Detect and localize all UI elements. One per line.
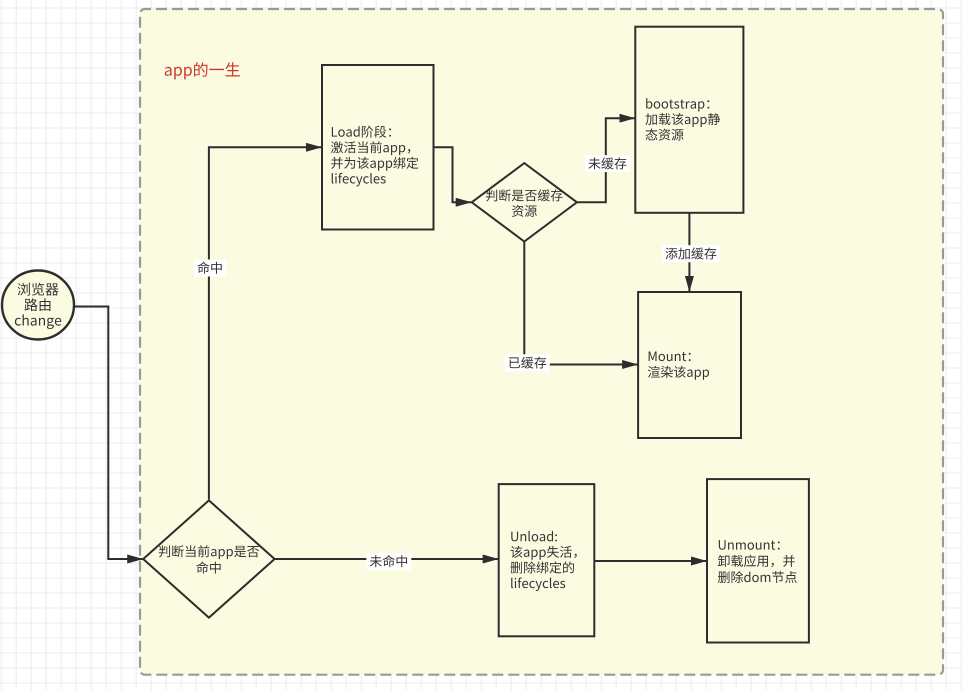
label: 未缓存	[585, 155, 630, 172]
wire: bootstrap -> Mount (添加缓存)	[688, 213, 690, 292]
node: rect Load阶段	[322, 65, 434, 230]
node: rect Unmount 卸载应用	[707, 479, 809, 642]
label: 已缓存	[505, 354, 550, 371]
wire: 判断是否缓存资源 -> Mount (已缓存)	[524, 242, 637, 365]
wire: Unload -> Unmount	[594, 560, 706, 562]
wire: Load阶段 -> 判断是否缓存资源	[434, 147, 472, 202]
node: diamond 判断当前app是否命中	[143, 500, 274, 617]
node: rect Mount 渲染该app	[638, 292, 741, 438]
node: ellipse 浏览器路由change	[2, 271, 74, 340]
label: 添加缓存	[662, 245, 720, 262]
wire: 判断是否缓存资源 -> bootstrap (未缓存)	[577, 118, 635, 202]
wire: 判断当前app是否命中 -> Load阶段 (命中)	[209, 147, 322, 499]
label: 未命中	[366, 553, 411, 570]
node: rect Unload 该app失活	[499, 484, 595, 636]
node: rect bootstrap 加载该app静态资源	[635, 27, 743, 213]
title: app的一生	[165, 62, 240, 79]
wire: 判断当前app是否命中 -> Unload (未命中)	[275, 558, 499, 560]
label: 命中	[194, 260, 226, 277]
wire: 浏览器路由change -> 判断当前app是否命中	[75, 307, 143, 560]
node: diamond 判断是否缓存资源	[472, 163, 577, 241]
